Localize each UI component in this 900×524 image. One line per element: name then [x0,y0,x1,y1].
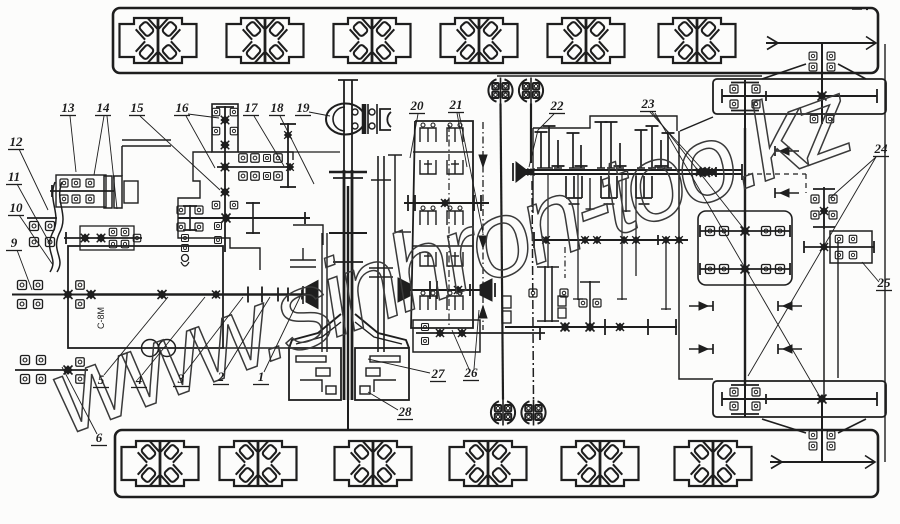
gear row upper [239,154,283,163]
road wheel axle box T5 [548,18,625,63]
gearbox housing outline [178,152,260,270]
layshaft verticals [548,174,636,240]
selector dashed rail [479,122,487,330]
shift rail x601 [595,122,608,168]
bevel cross pair [696,168,716,176]
svg-text:19: 19 [297,100,311,115]
top right bogie gear cluster [730,80,760,128]
callout 27 [368,359,446,382]
clutch column flanges [329,172,367,262]
universal joint top B [519,78,543,104]
svg-text:11: 11 [8,169,20,184]
svg-text:14: 14 [97,100,111,115]
svg-text:12: 12 [10,134,24,149]
clutch column upper extension [338,80,358,170]
bottom right final drive shaft [722,392,877,406]
callout 4 [131,297,205,388]
gearbox input shaft [369,156,393,352]
callout 23 [640,96,820,397]
top right final drive funnel [497,64,866,79]
svg-text:28: 28 [398,404,413,419]
transfer gear row 2 [700,263,790,275]
clutch unit 14 [104,176,138,208]
callout 3 [173,297,243,387]
callout 15 [129,100,220,190]
svg-text:2: 2 [217,369,225,384]
engine block [68,246,223,348]
road wheel axle box B1 [122,441,199,486]
torque arrows row A [689,301,802,311]
svg-text:15: 15 [131,100,145,115]
engine bottom line [223,347,289,349]
transfer gear case [698,211,792,285]
svg-text:6: 6 [96,430,103,445]
svg-text:20: 20 [410,98,425,113]
svg-text:27: 27 [431,366,446,381]
universal joint top A [488,78,512,104]
right gear column [280,123,296,188]
shift rail x558 [552,140,565,168]
right border line [884,44,886,462]
pump drive cluster 13 [50,175,114,207]
svg-text:9: 9 [11,235,18,250]
svg-text:23: 23 [641,96,656,111]
engine hanging symbol [181,235,189,267]
lower fork x566 [566,176,582,204]
top right axle gears [809,52,835,71]
bottom right bogie gear cluster [730,373,760,417]
top right wheel axle [766,37,876,50]
callout 18 [269,100,314,184]
svg-text:24: 24 [874,141,889,156]
callout 13 [60,100,76,172]
left bevel flare [289,314,341,348]
top right final drive housing [713,79,886,114]
gearbox housing top [533,116,677,213]
road wheel axle box T6 [659,18,736,63]
callout 12 [8,134,48,210]
svg-text:22: 22 [550,98,565,113]
lower gear stack [529,266,568,322]
clutch column shafts [344,170,352,400]
bogie drive vertical shaft [744,128,746,385]
transfer housing left wall [679,131,713,379]
dashed control line [748,174,806,193]
reverse idler stack [212,106,238,252]
input double line [122,140,171,176]
road wheel axle box T4 [441,18,518,63]
callout 10 [8,200,53,265]
callout 5 [93,297,168,388]
callout 1 [253,297,300,385]
shift rail x581 [575,145,588,168]
propeller shaft A [501,104,504,400]
clutch linkage bracket [290,248,316,304]
watermark [34,55,866,457]
callout 11 [6,169,49,242]
transfer housing right wall [837,241,839,378]
transfer row 10 [64,226,142,250]
side gear plates [502,296,566,323]
callout 28 [368,392,413,420]
bevel cone left [398,278,410,302]
housing step outline [680,117,713,131]
road wheel axle box B2 [220,441,297,486]
shift rail x668 [662,133,675,168]
gear row lower [239,172,283,181]
svg-text:1: 1 [258,369,265,384]
callout 2 [213,297,270,385]
shift fork pair y252 [420,252,463,266]
lower rail singles [586,178,631,212]
selector dashed rail 2 [448,125,450,328]
universal joint bottom B [521,400,545,426]
svg-text:5: 5 [98,372,105,387]
left sprocket cluster middle [12,281,95,309]
flywheel assembly 19 [326,104,377,135]
road wheel axle box B4 [450,441,527,486]
road wheel axle box B6 [675,441,752,486]
bevel gear pair on main shaft [700,167,716,177]
svg-text:www.sinhron-too.kz: www.sinhron-too.kz [34,55,866,457]
rear drive vertical shaft [823,215,825,399]
right bevel flare [355,314,409,348]
gearbox lower step [240,151,340,153]
callout 19 [295,100,330,116]
bottom right funnel [762,419,866,433]
svg-text:25: 25 [877,275,892,290]
svg-text:13: 13 [62,100,76,115]
road wheel axle box B5 [562,441,639,486]
top right wheel drive shaft [821,43,823,124]
propeller shaft B upper [530,104,532,164]
lower gear cluster [177,202,310,234]
main drive shaft [87,287,307,303]
brake drum shafts [322,233,327,352]
gear pair below housing [810,115,834,123]
callout 14 [94,100,117,209]
svg-text:4: 4 [135,372,143,387]
svg-text:10: 10 [10,200,24,215]
callout 9 [6,235,32,290]
gearbox 20 housing [411,121,473,328]
shift fork pair y296 [420,291,463,310]
callout 16 [174,100,219,168]
torque arrows row B [689,344,802,354]
drop shafts [548,240,671,310]
road wheel axle box T1 [120,18,197,63]
layshaft [534,232,688,248]
top frame rail [113,8,878,73]
callout 25 [862,262,892,291]
left sprocket cluster lower [15,356,88,384]
shift rail x661 [655,140,668,168]
corner mark [852,8,868,10]
bottom right final drive housing [713,381,886,417]
right axle box [355,348,409,400]
output shaft to rail [347,400,349,430]
main longitudinal shaft [522,164,742,180]
universal joint bottom A [491,400,515,426]
frame wavy edge [50,182,63,272]
PTO gearbox 25 [804,231,874,263]
svg-text:3: 3 [177,371,185,386]
callout 26 [452,310,479,381]
road wheel axle box T2 [227,18,304,63]
lower vertical stack [579,281,601,327]
steering column step [388,155,411,232]
transfer gear row 1 [700,225,790,237]
propeller shaft B lower (hidden) [532,181,534,400]
torque arrows upper [775,146,799,198]
shift rail x573 [567,133,580,168]
gearbox cross shaft [404,195,489,211]
lower fork x601 [601,176,617,204]
callout 17 [243,100,284,166]
pto box [413,320,545,352]
bottom right wheel shaft [821,399,823,462]
road wheel axle box B3 [335,441,412,486]
svg-text:21: 21 [449,97,463,112]
gearbox dividers [412,152,473,246]
shift rail x549 [543,126,556,168]
gearbox top cover [212,104,238,152]
road wheel axle box T3 [334,18,411,63]
svg-text:26: 26 [464,365,479,380]
bottom right axle gears [809,431,835,450]
shift rail x652 [646,126,659,168]
lower gear shaft [505,319,677,335]
top right final drive shaft [722,89,877,103]
shift rail x620 [614,143,627,168]
shift rail x611 [605,122,618,168]
svg-text:17: 17 [245,100,259,115]
bevel cone into clutch [306,281,318,309]
lower fork x636 [636,176,652,204]
intermediate shaft [410,281,480,299]
svg-text:16: 16 [176,100,190,115]
left axle box [289,348,341,400]
PTO gearbox 24 [811,187,837,229]
left sprocket cluster upper [27,218,57,247]
shift fork pair y128 [420,123,463,142]
callout 24 [748,141,889,376]
upper gear train shaft [217,163,294,171]
input bevel cone [513,162,535,182]
bevel cone right [480,279,495,301]
bottom frame rail [115,430,878,497]
dash-dot rail [564,247,566,278]
callout 22 [529,98,565,167]
callout 21 [448,97,483,233]
clutch release clamp [380,109,391,130]
shift fork pair y211 [420,206,463,225]
shift rail x541 [535,132,548,168]
callout 20 [409,98,425,158]
callout 6 [62,367,107,446]
winch rollers [142,340,176,357]
shift fork pair y160 [420,160,463,174]
svg-text:18: 18 [271,100,285,115]
shift rail x641 [635,130,648,168]
bottom right wheel axle [770,456,875,469]
